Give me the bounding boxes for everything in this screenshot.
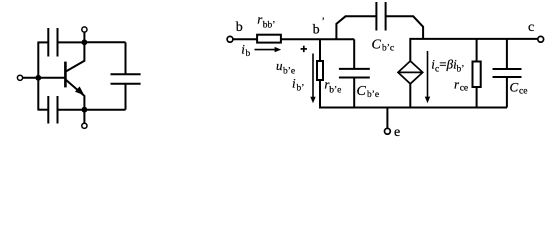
svg-text:b: b xyxy=(236,20,243,35)
node base junction xyxy=(35,75,41,81)
capacitor C_b'e branch upper xyxy=(353,39,355,69)
svg-text:ce: ce xyxy=(460,83,468,93)
wire current source to bottom rail xyxy=(409,84,411,108)
wire bridge riser left xyxy=(336,16,376,39)
wire top terminal lead xyxy=(83,32,85,42)
svg-text:’: ’ xyxy=(322,17,325,28)
transistor Q1 emitter xyxy=(66,80,85,110)
terminal c xyxy=(538,36,544,42)
capacitor C2 (bottom-left) xyxy=(38,109,47,111)
resistor r_bb' xyxy=(257,35,281,43)
svg-text:=: = xyxy=(439,57,446,72)
wire C_ce lower xyxy=(506,77,508,108)
wire top to right branch xyxy=(84,41,125,43)
capacitor C3 (right) xyxy=(111,73,141,75)
terminal e xyxy=(385,128,391,134)
arrow i_b xyxy=(255,49,276,51)
wire right branch lower xyxy=(125,84,127,110)
svg-text:b’: b’ xyxy=(457,64,465,74)
wire bottom xyxy=(58,109,125,111)
terminal (top) xyxy=(82,27,87,32)
wire b' drop to r_b'e xyxy=(319,39,321,61)
wire b to r_bb' xyxy=(233,38,257,40)
terminal (left, base input) xyxy=(17,75,22,80)
wire bottom terminal lead xyxy=(83,110,85,123)
plus sign u_b'e polarity xyxy=(301,48,307,50)
svg-text:C: C xyxy=(372,38,382,53)
svg-text:e: e xyxy=(394,125,400,140)
svg-text:u: u xyxy=(276,58,283,73)
terminal (bottom) xyxy=(82,123,87,128)
arrow i_c xyxy=(427,51,429,98)
terminal b xyxy=(227,36,233,42)
capacitor C_b'e branch lower xyxy=(353,78,355,108)
svg-text:c: c xyxy=(528,20,534,35)
svg-text:b: b xyxy=(313,23,320,38)
svg-text:b’c: b’c xyxy=(382,44,394,54)
svg-text:b’e: b’e xyxy=(367,90,379,100)
wire collector rail xyxy=(410,39,538,61)
wire r_bb' to b' to C_b'e corner xyxy=(280,38,354,40)
svg-text:bb’: bb’ xyxy=(263,21,276,31)
wire right branch upper xyxy=(125,42,127,74)
svg-text:b: b xyxy=(246,49,251,59)
resistor r_ce xyxy=(473,62,481,88)
current source middle line xyxy=(398,71,423,73)
capacitor C_b'e xyxy=(339,68,370,70)
arrow i_b' xyxy=(312,54,314,98)
capacitor C_ce xyxy=(493,68,522,70)
resistor r_b'e xyxy=(317,61,323,80)
wire C_ce upper xyxy=(506,39,508,69)
wire bridge right side xyxy=(386,16,424,39)
capacitor C1 (top-left) xyxy=(38,41,47,43)
svg-text:b’: b’ xyxy=(297,83,305,93)
svg-text:C: C xyxy=(357,84,367,99)
node collector junction xyxy=(82,39,88,45)
node emitter junction xyxy=(82,107,88,113)
wire e terminal drop xyxy=(386,108,388,129)
wire r_b'e to bottom rail xyxy=(319,80,321,107)
transistor Q1 base bar xyxy=(64,62,67,88)
wire r_ce upper xyxy=(476,39,478,62)
svg-text:i: i xyxy=(292,76,296,91)
transistor Q1 collector xyxy=(66,42,85,71)
wire left vertical xyxy=(37,42,39,111)
capacitor C_b'c xyxy=(375,2,377,31)
svg-text:ce: ce xyxy=(519,87,527,97)
svg-text:C: C xyxy=(510,80,519,95)
wire r_ce lower xyxy=(476,87,478,108)
svg-text:βi: βi xyxy=(446,57,457,72)
wire base lead xyxy=(23,77,64,79)
current source diamond xyxy=(398,61,423,84)
svg-text:b’e: b’e xyxy=(329,86,341,96)
transistor Q1 emitter arrowhead xyxy=(75,86,84,95)
wire bottom rail xyxy=(320,106,507,109)
